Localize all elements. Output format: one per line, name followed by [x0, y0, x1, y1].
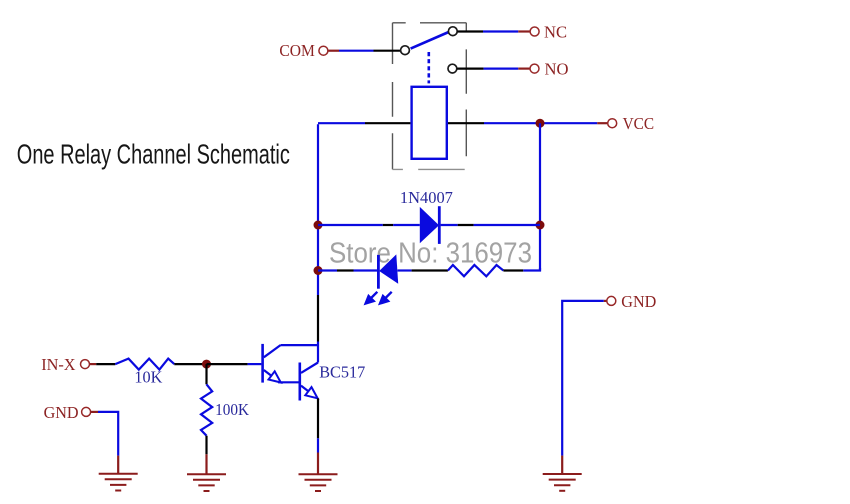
- wire VCC row blue left segment: [318, 122, 365, 124]
- NC terminal circle: [530, 27, 539, 36]
- relay outline dashed box right edge: [465, 23, 467, 157]
- wire LED row black segment 2: [412, 269, 448, 271]
- relay coil K1: [412, 87, 447, 159]
- transistor Q2 emitter arrowhead: [305, 387, 317, 398]
- wire diode row blue segment 2: [393, 224, 420, 226]
- transistor Q1 collector diagonal: [264, 345, 281, 357]
- transistor Q2 collector diagonal: [301, 363, 318, 373]
- wire right vertical from VCC junction: [539, 123, 541, 270]
- IN-X terminal circle: [81, 360, 90, 369]
- wire COM terminal red segment: [328, 50, 339, 52]
- relay outline dashed box top edge: [393, 22, 467, 24]
- switch pivot contact circle: [401, 46, 410, 55]
- LED arrow 1: [366, 292, 378, 304]
- wire GND left red stem: [117, 456, 119, 474]
- wire NC blue segment: [483, 30, 518, 32]
- LED triangle: [379, 254, 398, 283]
- wire 100K top black: [205, 364, 207, 384]
- COM terminal circle: [319, 46, 328, 55]
- relay armature dashed link: [427, 52, 430, 83]
- NO terminal circle: [530, 64, 539, 73]
- wire COM blue segment: [339, 50, 374, 52]
- transistor Q1 emitter diagonal: [264, 370, 272, 376]
- wire NC black segment: [458, 30, 484, 32]
- diode D1 1N4007 triangle: [420, 207, 439, 243]
- junction dot diode row left: [314, 221, 323, 230]
- wire left vertical blue to collector: [317, 342, 319, 363]
- LED arrow 2: [380, 292, 392, 304]
- svg-text:NC: NC: [544, 22, 567, 41]
- wire NO black segment: [457, 67, 484, 69]
- ground symbol GND left: [99, 474, 138, 491]
- wire VCC row black into coil: [365, 122, 410, 124]
- wire junction to base black: [207, 363, 248, 365]
- wire diode row black segment: [383, 224, 393, 226]
- resistor R1 10K zigzag: [115, 359, 174, 370]
- wire diode row blue segment 1: [318, 224, 383, 226]
- wire LED row blue segment 3: [398, 269, 412, 271]
- LED cathode bar: [377, 255, 380, 289]
- wire collector down black: [317, 398, 319, 438]
- wire VCC row black out of coil: [448, 122, 484, 124]
- wire resistor black segment: [503, 269, 523, 271]
- wire NO red segment: [518, 67, 530, 69]
- wire Q1 collector horizontal: [281, 344, 319, 346]
- wire 10K to junction black: [174, 363, 206, 365]
- svg-text:GND: GND: [44, 403, 79, 422]
- wire emitter ground red stem: [317, 453, 319, 475]
- wire GND left red segment: [91, 411, 98, 413]
- svg-text:NO: NO: [545, 60, 569, 79]
- ground symbol GND right: [543, 474, 582, 491]
- wire NC red segment: [518, 30, 530, 32]
- wire Q1 emitter to Q2 base: [278, 381, 299, 383]
- transistor Q1 BC517 base bar: [261, 344, 264, 383]
- wire collector down blue: [317, 438, 319, 452]
- wire left vertical black segment: [317, 295, 319, 342]
- wire GND left blue L: [98, 412, 118, 456]
- resistor R2 100K zigzag: [201, 384, 212, 435]
- NC contact circle: [448, 27, 457, 36]
- wire resistor to right vertical blue corner: [523, 268, 540, 271]
- wire diode row blue segment 3: [441, 224, 458, 226]
- wire diode row black segment 2: [458, 224, 474, 226]
- wire left vertical from VCC corner: [317, 124, 319, 295]
- wire COM black segment: [374, 50, 401, 52]
- svg-text:1N4007: 1N4007: [400, 188, 453, 207]
- svg-text:GND: GND: [621, 292, 656, 311]
- resistor R3 zigzag: [448, 265, 504, 276]
- wire 100K ground red stem: [205, 454, 207, 474]
- junction dot diode row right: [536, 221, 545, 230]
- GND left terminal circle: [82, 407, 91, 416]
- svg-text:100K: 100K: [215, 400, 250, 419]
- wire IN-X red segment: [90, 363, 97, 365]
- wire LED row blue segment 2: [354, 269, 379, 271]
- relay outline dashed box left edge: [393, 23, 467, 170]
- wire GND right blue L: [562, 301, 604, 456]
- svg-text:IN-X: IN-X: [41, 355, 75, 374]
- svg-text:VCC: VCC: [623, 114, 655, 133]
- junction dot base node: [202, 360, 211, 369]
- transistor Q2 emitter diagonal: [301, 386, 309, 392]
- wire LED row blue segment 1: [318, 269, 337, 271]
- wire LED row black segment 1: [337, 269, 354, 271]
- svg-text:Store No: 316973: Store No: 316973: [329, 237, 532, 269]
- switch blade to NC: [411, 32, 449, 49]
- junction dot LED row left: [314, 266, 323, 275]
- svg-text:COM: COM: [279, 41, 315, 60]
- svg-text:10K: 10K: [134, 368, 163, 387]
- wire junction to base blue: [248, 363, 262, 365]
- wire 100K bottom black: [205, 436, 207, 455]
- wire NO blue segment: [484, 67, 519, 69]
- svg-text:BC517: BC517: [319, 363, 365, 382]
- transistor Q1 emitter arrowhead: [269, 371, 281, 382]
- ground symbol under 100K: [187, 474, 226, 491]
- wire IN-X black segment: [96, 363, 115, 365]
- svg-text:One Relay Channel Schematic: One Relay Channel Schematic: [17, 138, 290, 169]
- wire junction to VCC terminal blue: [540, 122, 597, 124]
- relay outline dashed box bottom edge: [393, 168, 465, 170]
- wire diode row blue segment 4: [474, 224, 540, 226]
- wire GND right red segment: [604, 300, 607, 302]
- wire VCC terminal red segment: [597, 122, 608, 124]
- junction dot VCC: [536, 119, 545, 128]
- VCC terminal circle: [608, 119, 617, 128]
- ground symbol under transistor: [299, 474, 338, 491]
- wire GND right red stem: [561, 456, 563, 474]
- GND right terminal circle: [607, 296, 616, 305]
- wire VCC row blue to junction: [484, 122, 540, 124]
- transistor Q2 base bar: [298, 363, 301, 401]
- diode D1 cathode bar: [438, 206, 441, 244]
- NO contact circle: [448, 64, 457, 73]
